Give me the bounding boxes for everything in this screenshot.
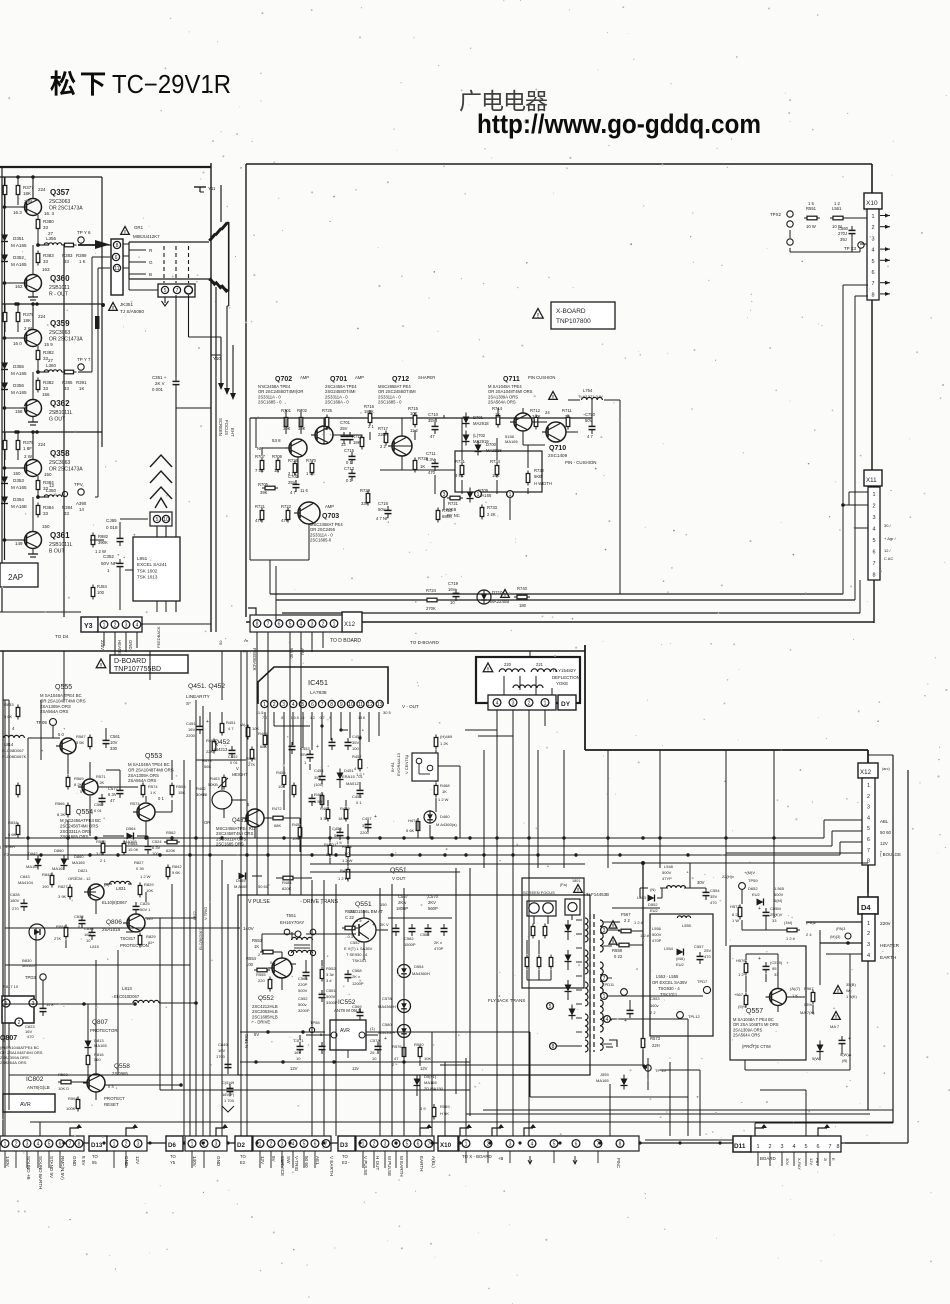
svg-text:C AC: C AC xyxy=(884,556,893,561)
svg-text:1200P: 1200P xyxy=(352,981,364,986)
svg-text:33: 33 xyxy=(341,442,346,447)
svg-text:4: 4 xyxy=(867,815,870,821)
transistor Q452 xyxy=(205,791,232,809)
capacitor C569 xyxy=(352,1004,364,1023)
svg-text:D351: D351 xyxy=(13,236,24,241)
svg-text:6: 6 xyxy=(867,837,870,843)
svg-text:RESET: RESET xyxy=(104,1102,119,1107)
svg-text:D860: D860 xyxy=(74,854,84,859)
svg-text:MA165: MA165 xyxy=(72,860,85,865)
svg-text:16.3: 16.3 xyxy=(13,210,22,215)
svg-text:R456: R456 xyxy=(276,770,286,775)
svg-text:2SD1556L BM AT: 2SD1556L BM AT xyxy=(350,909,383,914)
resistor R587 xyxy=(88,735,92,750)
svg-text:1 K: 1 K xyxy=(150,790,156,795)
svg-text:500V: 500V xyxy=(326,994,336,999)
svg-text:5: 5 xyxy=(303,1142,306,1148)
svg-text:Y10: Y10 xyxy=(213,356,221,361)
connector D6 xyxy=(166,1136,227,1151)
svg-text:EU2: EU2 xyxy=(650,908,659,913)
svg-text:C702: C702 xyxy=(288,474,299,479)
svg-text:1: 1 xyxy=(333,622,336,628)
svg-text:1 2 W: 1 2 W xyxy=(438,797,449,802)
svg-text:6: 6 xyxy=(417,1142,420,1148)
svg-text:D821: D821 xyxy=(78,868,88,873)
svg-text:A390: A390 xyxy=(76,501,87,506)
svg-text:2K v: 2K v xyxy=(352,974,360,979)
svg-text:TPD3: TPD3 xyxy=(25,975,36,980)
svg-text:C582: C582 xyxy=(404,936,414,941)
svg-text:SW: SW xyxy=(286,1156,291,1164)
svg-text:12 /: 12 / xyxy=(884,548,892,553)
svg-text:15 0K: 15 0K xyxy=(128,847,139,852)
svg-text:50 60: 50 60 xyxy=(880,830,892,835)
svg-text:C825: C825 xyxy=(140,901,150,906)
svg-text:C578: C578 xyxy=(382,996,392,1001)
svg-text:1: 1 xyxy=(191,1142,194,1148)
svg-text:C562: C562 xyxy=(420,932,430,937)
svg-text:C551: C551 xyxy=(326,988,336,993)
resistor R570 xyxy=(414,1042,431,1061)
svg-text:IC451: IC451 xyxy=(308,678,328,687)
resistor R740 xyxy=(514,586,530,608)
svg-text:Q551: Q551 xyxy=(390,867,407,874)
svg-text:Q358: Q358 xyxy=(50,449,70,458)
resistor R843 xyxy=(42,872,54,889)
svg-text:D352: D352 xyxy=(13,255,24,260)
svg-text:6(M): 6(M) xyxy=(774,898,783,903)
svg-text:12: 12 xyxy=(367,702,373,708)
svg-text:TPV,: TPV, xyxy=(74,482,84,487)
svg-text:LA7838: LA7838 xyxy=(310,690,327,696)
inductor L356 xyxy=(44,231,62,245)
diode D843 MA4104 xyxy=(18,874,45,940)
svg-text:39K: 39K xyxy=(283,426,291,431)
capacitor C575 xyxy=(370,1036,387,1061)
svg-text:220: 220 xyxy=(504,662,512,667)
diode D578 xyxy=(378,996,411,1013)
svg-text:5 6K: 5 6K xyxy=(76,740,85,745)
svg-text:18K: 18K xyxy=(353,440,361,445)
svg-text:3: 3 xyxy=(867,942,870,948)
svg-text:53 8: 53 8 xyxy=(272,438,281,443)
resistor R726 xyxy=(288,458,299,476)
svg-text:10K: 10K xyxy=(292,836,299,841)
svg-text:10: 10 xyxy=(163,517,169,523)
svg-text:1 2*: 1 2* xyxy=(738,972,746,977)
svg-text:11: 11 xyxy=(358,702,363,708)
svg-text:2 *: 2 * xyxy=(392,1062,397,1067)
svg-text:224: 224 xyxy=(38,187,46,192)
svg-text:0 01: 0 01 xyxy=(94,808,103,813)
resistor H567 xyxy=(734,992,748,1009)
svg-text:C570: C570 xyxy=(428,894,439,899)
svg-text:(PA)3: (PA)3 xyxy=(836,927,845,931)
box Q557 region xyxy=(730,946,806,1060)
svg-text:R726: R726 xyxy=(288,458,299,463)
svg-text:7: 7 xyxy=(871,281,874,287)
svg-text:(M)(3): (M)(3) xyxy=(830,935,841,939)
svg-text:TO: TO xyxy=(92,1154,98,1159)
svg-text:D710: D710 xyxy=(492,590,503,595)
svg-text:6: 6 xyxy=(872,550,875,556)
svg-text:JK351: JK351 xyxy=(120,302,133,307)
svg-text:149: 149 xyxy=(15,541,23,546)
svg-text:C552: C552 xyxy=(298,996,308,1001)
capacitor C571 xyxy=(294,1038,304,1061)
svg-text:R555: R555 xyxy=(256,972,266,977)
capacitor C459 extra xyxy=(289,724,362,806)
flyback transformer windings xyxy=(488,914,612,1052)
wire right side verticals xyxy=(755,755,908,1143)
svg-text:(1): (1) xyxy=(370,1026,376,1031)
svg-text:3 9K: 3 9K xyxy=(96,851,105,856)
connector X10 bottom xyxy=(438,1136,639,1168)
svg-text:!: ! xyxy=(577,888,579,894)
label box D-BOARD TNP107755BD xyxy=(96,655,188,673)
svg-text:4 7: 4 7 xyxy=(228,726,234,731)
svg-text:1 2 #: 1 2 # xyxy=(640,933,650,938)
svg-text:7: 7 xyxy=(872,561,875,567)
svg-text:2SB1011L: 2SB1011L xyxy=(49,542,73,548)
svg-text:1: 1 xyxy=(544,701,547,707)
svg-text:4: 4 xyxy=(496,701,499,707)
capacitor C716 xyxy=(376,501,392,521)
resistor R711 xyxy=(562,408,572,430)
svg-text:D356: D356 xyxy=(13,383,24,388)
svg-text:R462: R462 xyxy=(196,786,206,791)
svg-text:C719: C719 xyxy=(448,581,459,586)
svg-text:R842: R842 xyxy=(172,864,182,869)
resistor H576 xyxy=(736,958,748,977)
svg-text:R383: R383 xyxy=(62,253,73,258)
svg-text:1K: 1K xyxy=(79,386,84,391)
resistor R461 xyxy=(320,806,330,822)
svg-text:R714: R714 xyxy=(492,406,503,411)
svg-text:C710: C710 xyxy=(428,412,439,417)
svg-text:C711: C711 xyxy=(426,451,436,456)
svg-text:500V: 500V xyxy=(298,988,308,993)
svg-text:2SC1685-0: 2SC1685-0 xyxy=(310,538,332,543)
svg-text:TSK1011: TSK1011 xyxy=(660,992,678,997)
resistor R569 xyxy=(66,775,70,790)
svg-text:47YP: 47YP xyxy=(662,876,672,881)
svg-text:AE1: AE1 xyxy=(315,1156,320,1165)
svg-text:OR EXCEL SA35V: OR EXCEL SA35V xyxy=(652,980,687,985)
svg-text:1: 1 xyxy=(107,568,110,573)
svg-text:R556: R556 xyxy=(176,784,186,789)
testpoint TPD7 xyxy=(697,979,711,994)
resistor R707 xyxy=(255,446,266,473)
svg-text:V - OUT: V - OUT xyxy=(402,704,419,709)
svg-text:AN78(G)LB: AN78(G)LB xyxy=(27,1085,50,1090)
svg-text:2SC1409: 2SC1409 xyxy=(548,453,568,458)
svg-text:270K: 270K xyxy=(426,606,436,611)
svg-text:8: 8 xyxy=(867,859,870,865)
resistor R725 xyxy=(322,408,333,431)
resistor R451 xyxy=(220,720,236,736)
svg-text:6: 6 xyxy=(59,1142,62,1148)
transistor Q702 xyxy=(258,375,309,457)
svg-text:5: 5 xyxy=(867,826,870,832)
svg-text:TNP107800: TNP107800 xyxy=(556,318,591,325)
resistor Q360 base res xyxy=(36,251,54,266)
svg-text:180: 180 xyxy=(519,603,527,608)
wires Q557 cluster xyxy=(726,853,842,1060)
svg-text:11: 11 xyxy=(114,266,119,272)
inductor L754 xyxy=(578,388,603,400)
svg-text:10K D: 10K D xyxy=(58,1086,69,1091)
capacitor C352 xyxy=(101,554,124,573)
wire left block bottom xyxy=(0,612,211,624)
resistor R729 xyxy=(413,456,428,473)
svg-text:150: 150 xyxy=(13,471,21,476)
svg-text:10K: 10K xyxy=(278,784,285,789)
svg-text:5: 5 xyxy=(549,1004,552,1010)
svg-text:2SB1011: 2SB1011 xyxy=(49,285,70,291)
svg-text:4: 4 xyxy=(606,1017,609,1023)
svg-text:R722: R722 xyxy=(281,504,292,509)
capacitor C553 xyxy=(624,996,660,1024)
svg-text:D2: D2 xyxy=(237,1142,245,1149)
svg-text:47: 47 xyxy=(110,798,115,803)
svg-text:2: 2 xyxy=(373,1142,376,1148)
svg-text:30 5: 30 5 xyxy=(383,710,392,715)
svg-text:T SE930 - 4: T SE930 - 4 xyxy=(346,952,368,957)
svg-text:X10: X10 xyxy=(866,200,878,207)
label 140V xyxy=(243,926,301,937)
svg-text:M A165: M A165 xyxy=(11,262,27,267)
svg-text:7: 7 xyxy=(428,1142,431,1148)
warning CRT M88JU412K7 xyxy=(121,225,160,239)
svg-text:TPD11: TPD11 xyxy=(602,982,615,987)
capacitor C715 xyxy=(344,448,356,465)
node Y10 xyxy=(213,356,221,361)
svg-text:35V: 35V xyxy=(352,740,359,745)
resistor R566 xyxy=(55,801,70,818)
svg-text:1: 1 xyxy=(103,623,106,629)
transistor Q361 xyxy=(3,497,73,557)
svg-text:1: 1 xyxy=(4,1142,7,1148)
svg-text:R382: R382 xyxy=(43,350,54,355)
svg-text:1K: 1K xyxy=(420,464,425,469)
resistor R829a xyxy=(138,882,154,898)
svg-text:PROTECTION: PROTECTION xyxy=(120,943,149,948)
svg-text:10K: 10K xyxy=(146,888,153,893)
svg-text:8 2K: 8 2K xyxy=(57,812,66,817)
resistor R556 xyxy=(170,783,186,798)
resistor R378 top xyxy=(3,430,46,460)
svg-text:1: 1 xyxy=(757,1144,760,1150)
svg-text:4: 4 xyxy=(292,702,295,708)
svg-text:PIN - CUSHION: PIN - CUSHION xyxy=(565,460,596,465)
svg-text:Q553: Q553 xyxy=(145,753,162,760)
svg-text:( FIL)ER: ( FIL)ER xyxy=(0,844,15,849)
svg-text:AMP: AMP xyxy=(300,375,309,380)
svg-text:1K: 1K xyxy=(325,426,330,431)
svg-text:EU2: EU2 xyxy=(676,962,685,967)
transistor Q554 label xyxy=(60,809,101,839)
svg-text:V PULSE: V PULSE xyxy=(248,899,270,905)
svg-text:TP X3: TP X3 xyxy=(844,246,857,251)
svg-text:C552: C552 xyxy=(350,940,360,945)
svg-text:R566: R566 xyxy=(55,801,65,806)
svg-text:TSK101: TSK101 xyxy=(352,958,367,963)
svg-text:8: 8 xyxy=(552,1044,555,1050)
svg-text:Q361: Q361 xyxy=(50,531,70,540)
transistor Q557 xyxy=(733,986,801,1049)
svg-text:R464: R464 xyxy=(258,731,268,736)
resistor R731 xyxy=(455,459,466,478)
svg-text:SCREEN: SCREEN xyxy=(218,418,223,436)
svg-text:AN78 M 05LB: AN78 M 05LB xyxy=(334,1008,361,1013)
resistor R724 xyxy=(424,588,440,611)
box pincushion width network xyxy=(402,451,542,492)
svg-text:FLYBACK TRANS: FLYBACK TRANS xyxy=(488,998,525,1003)
capacitor C551 xyxy=(319,988,338,1005)
svg-text:1: 1 xyxy=(872,492,875,498)
wire section divider 304 xyxy=(2,302,102,306)
capacitor C455 xyxy=(345,734,363,751)
svg-text:ABL: ABL xyxy=(880,819,889,824)
svg-text:R(47)1: R(47)1 xyxy=(324,842,337,847)
svg-text:R391: R391 xyxy=(76,380,87,385)
resistor R564 xyxy=(122,841,139,856)
diode J559 xyxy=(596,1065,666,1090)
svg-text:13 6: 13 6 xyxy=(358,716,365,720)
svg-text:C524: C524 xyxy=(152,839,162,844)
resistor R470 xyxy=(338,867,350,882)
wire top border left block xyxy=(0,163,221,632)
diode D460 xyxy=(424,810,457,827)
capacitor C577 xyxy=(108,786,124,803)
svg-text:LINEARITY: LINEARITY xyxy=(186,694,210,699)
svg-text:2: 2 xyxy=(872,504,875,510)
svg-text:Y11: Y11 xyxy=(208,186,216,191)
resistor R715 xyxy=(408,406,419,428)
svg-text:4: 4 xyxy=(867,953,870,959)
svg-text:TPX2: TPX2 xyxy=(770,212,782,217)
svg-text:W ;: W ; xyxy=(846,988,852,993)
svg-text:25 -: 25 - xyxy=(370,1050,378,1055)
diode TP59 cluster xyxy=(722,870,800,930)
svg-text:3: 3 xyxy=(281,1142,284,1148)
wire section divider 432 xyxy=(2,430,102,434)
svg-text:470: 470 xyxy=(428,470,436,475)
svg-text:R472: R472 xyxy=(272,806,282,811)
svg-text:4: 4 xyxy=(871,248,874,254)
svg-text:R573: R573 xyxy=(650,1036,661,1041)
transistor Q362 xyxy=(3,372,73,425)
svg-text:5: 5 xyxy=(871,259,874,265)
svg-text:+567: +567 xyxy=(734,992,744,997)
svg-text:C843: C843 xyxy=(20,874,30,879)
svg-text:(B): (B) xyxy=(842,1058,848,1063)
svg-text:220: 220 xyxy=(258,978,265,983)
resistor R702 xyxy=(297,408,308,431)
svg-text:MA4104: MA4104 xyxy=(18,880,34,885)
svg-text:(A)(7): (A)(7) xyxy=(790,986,801,991)
svg-text:8 2: 8 2 xyxy=(732,912,738,917)
svg-text:OR3CM - 12: OR3CM - 12 xyxy=(68,876,91,881)
svg-text:EARTH: EARTH xyxy=(880,955,897,961)
warning JK351 TJS/A5080 xyxy=(101,302,144,314)
capacitor C351 xyxy=(152,375,180,392)
svg-text:3 3K: 3 3K xyxy=(320,816,329,821)
svg-text:53%: 53% xyxy=(804,1002,812,1007)
resistor R552 xyxy=(320,966,336,983)
resistor R462 xyxy=(292,822,302,841)
svg-text:R571: R571 xyxy=(96,774,106,779)
svg-text:100: 100 xyxy=(97,590,105,595)
svg-text:C 22: C 22 xyxy=(345,915,355,920)
resistor R472 xyxy=(270,806,286,828)
svg-text:R843: R843 xyxy=(42,872,52,877)
transistor Q806 xyxy=(90,914,156,949)
svg-text:R707: R707 xyxy=(255,454,266,459)
svg-text:R552: R552 xyxy=(326,966,336,971)
svg-text:PY NC: PY NC xyxy=(447,513,460,518)
svg-text:R702: R702 xyxy=(297,408,308,413)
svg-text:2AP: 2AP xyxy=(8,573,23,582)
svg-text:R389: R389 xyxy=(76,253,87,258)
wire bottom connector rail xyxy=(0,1142,880,1144)
wires above D11 xyxy=(610,1058,806,1140)
svg-text:IC802: IC802 xyxy=(26,1076,44,1083)
diode D455 xyxy=(234,873,269,890)
svg-text:150: 150 xyxy=(44,472,52,477)
svg-text:16V: 16V xyxy=(188,727,195,732)
svg-text:R574: R574 xyxy=(130,801,140,806)
svg-text:R740: R740 xyxy=(517,586,528,591)
resistor R576 xyxy=(392,1044,406,1067)
svg-text:0 01: 0 01 xyxy=(230,760,239,765)
testpoint TPY8 xyxy=(36,482,84,499)
svg-text:158: 158 xyxy=(15,409,23,414)
capacitor C451 xyxy=(186,719,209,738)
label Q552 block xyxy=(252,995,278,1025)
svg-text:X11: X11 xyxy=(866,477,877,484)
svg-text:6: 6 xyxy=(817,1144,820,1150)
svg-text:1: 1 xyxy=(113,1142,116,1148)
CRT funnel xyxy=(123,186,229,306)
svg-text:R721: R721 xyxy=(255,504,266,509)
svg-text:G OUT: G OUT xyxy=(49,416,65,422)
svg-text:X-RAY: X-RAY xyxy=(797,1158,802,1170)
svg-text:8: 8 xyxy=(330,702,333,708)
svg-text:2SA564A ORS: 2SA564A ORS xyxy=(0,1060,27,1065)
svg-text:163: 163 xyxy=(42,267,50,272)
diode D701 xyxy=(463,413,490,428)
label Q551 V-OUT xyxy=(390,867,407,881)
svg-text:4: 4 xyxy=(136,623,139,629)
svg-text:TL Y15482Y: TL Y15482Y xyxy=(552,668,576,673)
svg-text:220v: 220v xyxy=(880,921,891,927)
svg-text:150: 150 xyxy=(380,902,387,907)
svg-text:R569: R569 xyxy=(74,776,84,781)
svg-text:Q806: Q806 xyxy=(106,919,122,926)
svg-text:SERVICE: SERVICE xyxy=(280,1156,285,1176)
resistor R723 xyxy=(436,508,452,523)
capacitor C701 xyxy=(340,420,351,447)
box 2AP xyxy=(0,563,38,587)
svg-text:CJ65: CJ65 xyxy=(106,518,117,523)
svg-text:4: 4 xyxy=(300,622,303,628)
transistor Q452 label xyxy=(202,739,230,769)
svg-text:X10: X10 xyxy=(440,1142,452,1149)
svg-text:J559: J559 xyxy=(600,1072,609,1077)
svg-text:470: 470 xyxy=(704,954,711,959)
